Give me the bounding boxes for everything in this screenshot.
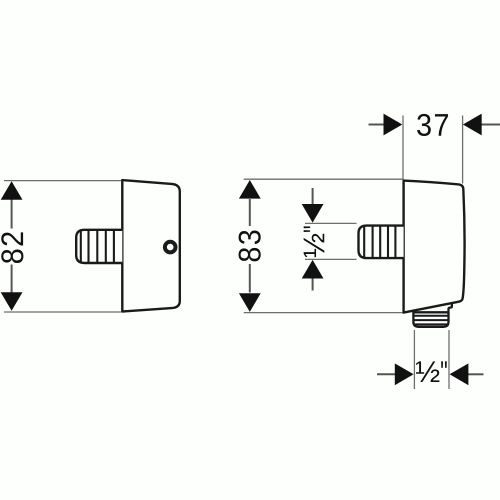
dimension 37: left-pointing arrow (463, 114, 482, 136)
dimension half-inch stub label text (304, 226, 325, 257)
dimension 82: lower dimension line segment (11, 265, 13, 293)
dimension 37: left extension line (vertical) (402, 116, 404, 180)
dimension 83: lower dimension line segment (249, 264, 251, 293)
outlet connector hook step (449, 303, 452, 312)
dimension 83: down arrow (239, 293, 261, 312)
right stub thread hatch line 3 (379, 226, 381, 259)
right stub thread hatch line 1 (363, 226, 365, 259)
left stub thread hatch line 1 (80, 230, 82, 263)
outlet nipple thread line 3 (415, 323, 447, 325)
left stub thread hatch line 3 (96, 230, 98, 263)
dimension 37: right lead line (481, 124, 500, 126)
dimension 83: bottom extension line (244, 312, 403, 314)
dimension 37 label text (417, 114, 448, 136)
outlet nipple (bottom, threaded) (413, 312, 448, 327)
dimension 37: left lead line (369, 124, 385, 126)
outlet nipple thread line 2 (413, 319, 448, 321)
dimension half-inch stub: top extension line (305, 222, 357, 224)
dimension 82 label text (1, 232, 23, 263)
left view body (escutcheon side profile) (122, 180, 180, 311)
left stub thread hatch line 2 (87, 230, 89, 263)
dimension half-inch outlet label text (416, 361, 447, 382)
right view threaded inlet stub (359, 226, 404, 259)
dimension 83: up arrow (239, 180, 261, 199)
dimension 37: right-pointing arrow (384, 114, 403, 136)
outlet nipple thread line 1 (413, 315, 448, 317)
dimension 37: right extension line (vertical) (462, 116, 464, 184)
dimension 82: up arrow (1, 181, 23, 200)
right stub thread hatch line 5 (394, 226, 396, 259)
dimension 82: top extension line (4, 180, 121, 182)
left view screw hole ring (165, 242, 176, 253)
dimension half-inch outlet: left extension line (413, 330, 415, 389)
dimension 82: down arrow (1, 292, 23, 311)
left stub thread hatch line 5 (113, 230, 115, 263)
dimension half-inch stub: lower lead line (312, 278, 314, 291)
right stub thread hatch line 2 (372, 226, 374, 259)
right stub thread hatch line 4 (387, 226, 389, 259)
dimension half-inch stub: down arrow (302, 204, 324, 223)
dimension 83 label text (239, 230, 261, 261)
dimension half-inch outlet: left-pointing arrow (450, 363, 469, 385)
dimension half-inch stub: up arrow (302, 260, 324, 279)
left view threaded inlet stub (76, 230, 122, 263)
dimension 83: upper dimension line segment (249, 199, 251, 226)
right view body (escutcheon front profile) (404, 181, 465, 313)
dimension 82: bottom extension line (4, 311, 121, 313)
dimension half-inch stub: bottom extension line (305, 258, 357, 260)
dimension half-inch stub: upper lead line (312, 188, 314, 205)
left stub thread hatch line 4 (105, 230, 107, 263)
dimension half-inch outlet: right extension line (448, 330, 450, 389)
dimension half-inch outlet: left lead line (377, 373, 396, 375)
dimension half-inch outlet: right-pointing arrow (395, 363, 414, 385)
dimension half-inch outlet: right lead line (468, 373, 484, 375)
dimension 83: top extension line (244, 178, 403, 180)
dimension 82: upper dimension line segment (11, 200, 13, 229)
